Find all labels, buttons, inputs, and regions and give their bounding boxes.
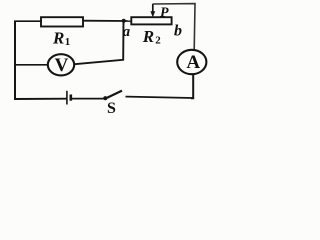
svg-text:1: 1 <box>65 36 71 48</box>
wire left vertical <box>14 21 16 100</box>
battery short plate <box>70 95 73 101</box>
resistor R1 <box>41 17 83 26</box>
junction dot <box>122 19 126 23</box>
svg-text:b: b <box>174 23 182 40</box>
wire slider to top right corner <box>153 4 195 50</box>
svg-text:V: V <box>55 55 69 76</box>
slider arrow P <box>150 4 155 18</box>
svg-text:R: R <box>142 27 154 46</box>
wire battery to switch <box>72 98 105 100</box>
battery long plate <box>66 91 68 105</box>
svg-text:S: S <box>107 100 116 117</box>
wire bottom right segment (switch to corner) <box>126 97 194 98</box>
wire R1 to node a <box>83 20 132 22</box>
wire voltmeter left <box>14 64 48 66</box>
svg-text:P: P <box>160 6 169 21</box>
switch pivot dot <box>103 96 107 100</box>
wire junction down to voltmeter branch <box>75 21 124 64</box>
wire ammeter down to bottom right corner <box>191 74 193 98</box>
wire top left segment <box>14 20 42 22</box>
svg-text:a: a <box>123 24 131 40</box>
svg-text:R: R <box>52 29 64 48</box>
rheostat R2 <box>131 17 171 24</box>
wire bottom left segment <box>14 98 67 100</box>
switch lever <box>105 91 123 99</box>
voltmeter V <box>48 54 74 75</box>
ammeter A <box>177 50 206 74</box>
svg-text:2: 2 <box>155 35 161 47</box>
svg-text:A: A <box>186 52 200 73</box>
